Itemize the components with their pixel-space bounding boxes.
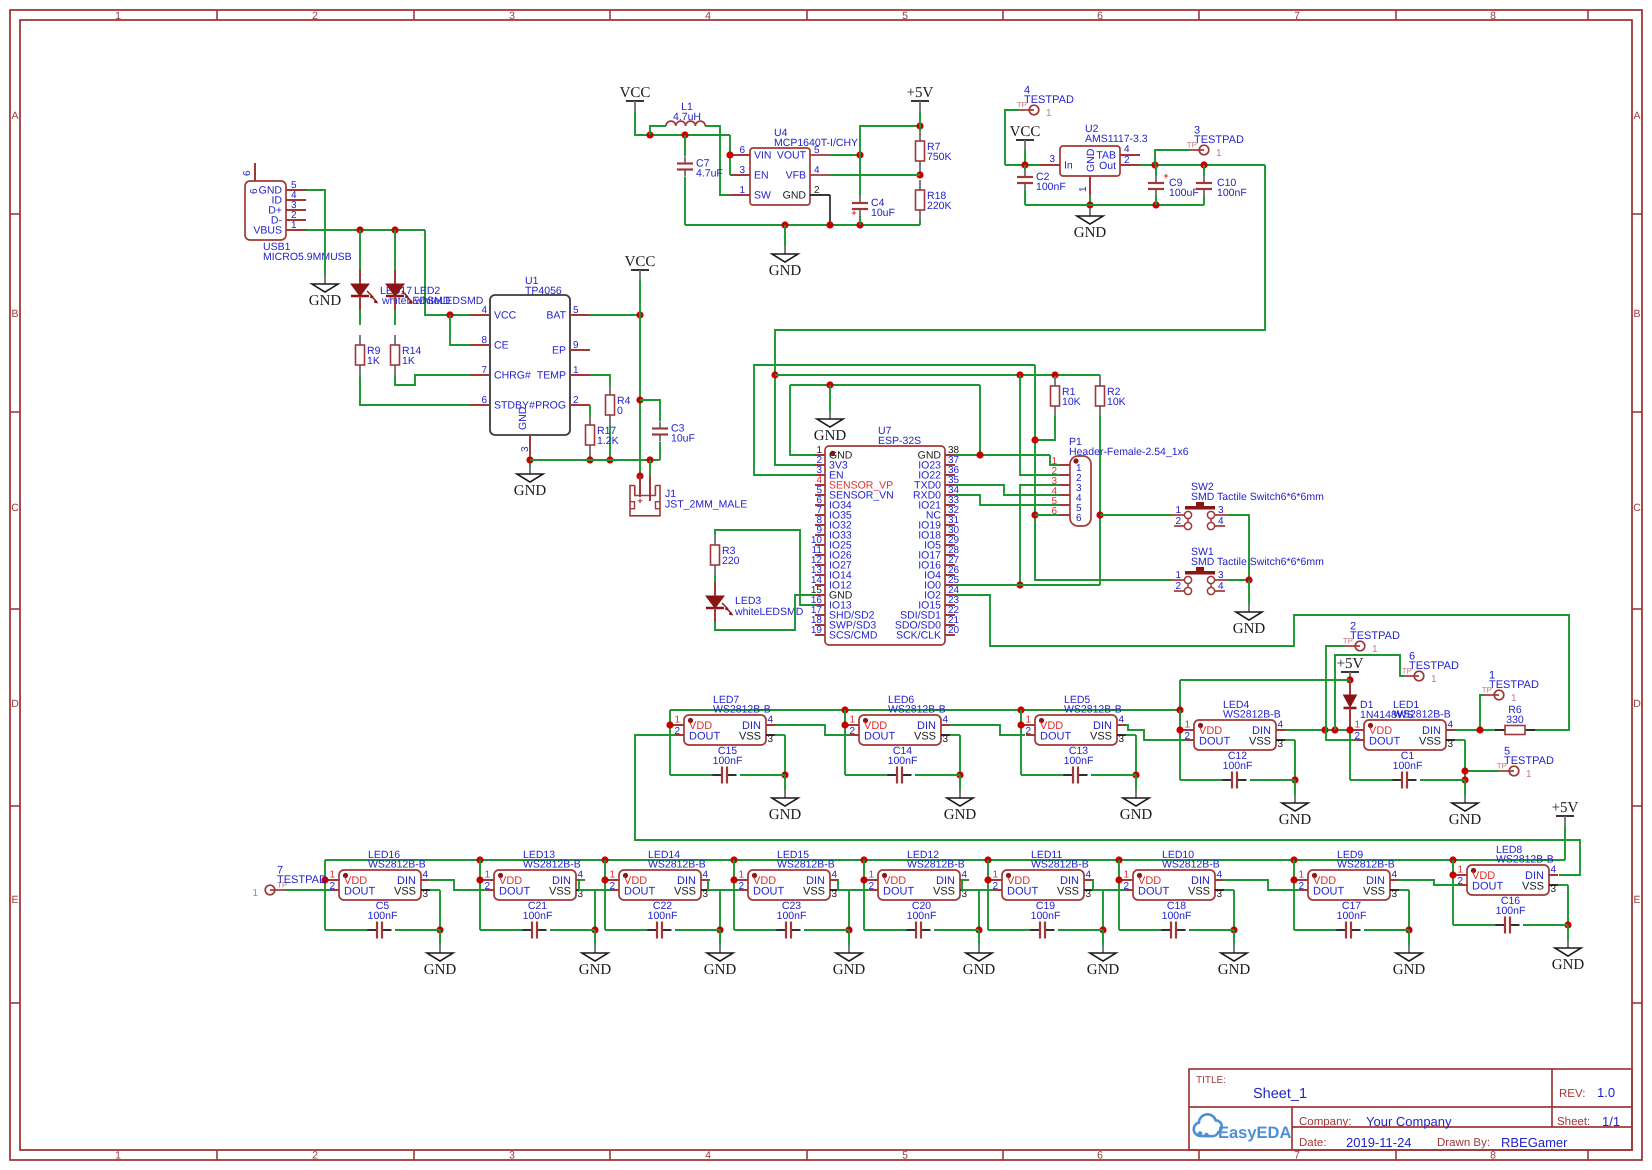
svg-text:3: 3 xyxy=(1218,570,1224,581)
svg-text:3: 3 xyxy=(509,1150,515,1162)
svg-text:3: 3 xyxy=(768,734,774,745)
svg-text:4: 4 xyxy=(1448,720,1454,731)
svg-text:4: 4 xyxy=(1124,144,1130,155)
power VCC top left xyxy=(620,85,730,139)
wire BAT to VCC net xyxy=(590,311,644,318)
LED LED14 WS2812B-B xyxy=(601,849,723,934)
svg-text:WS2812B-B: WS2812B-B xyxy=(1162,859,1220,871)
resistor R4 0 xyxy=(606,385,631,425)
inductor L1 4.7uH xyxy=(650,101,705,135)
svg-text:VSS: VSS xyxy=(1363,886,1385,898)
svg-text:DOUT: DOUT xyxy=(753,886,784,898)
svg-text:MICRO5.9MMUSB: MICRO5.9MMUSB xyxy=(263,251,352,263)
svg-text:1: 1 xyxy=(329,870,335,881)
svg-text:TESTPAD: TESTPAD xyxy=(1024,94,1074,106)
svg-text:VSS: VSS xyxy=(1188,886,1210,898)
svg-text:8: 8 xyxy=(481,335,487,346)
IC U4 MCP1640T-I/CHY xyxy=(730,127,858,205)
svg-text:GND: GND xyxy=(963,962,996,978)
ground under LED4 xyxy=(1279,780,1312,828)
svg-text:100nF: 100nF xyxy=(1496,905,1526,917)
svg-text:VCC: VCC xyxy=(1010,124,1041,140)
svg-text:4: 4 xyxy=(768,715,774,726)
wire P1 pin6 EN xyxy=(1035,514,1060,516)
switch SW1 SMD Tactile Switch6*6*6mm xyxy=(1172,546,1324,595)
svg-text:3: 3 xyxy=(1086,889,1092,900)
svg-text:5: 5 xyxy=(902,1150,908,1162)
wire R9 to STDBY# xyxy=(360,375,470,405)
resistor R2 10K xyxy=(1096,375,1126,585)
svg-text:GND: GND xyxy=(1279,812,1312,828)
wire ESP pin38 GND to P1 pin1 xyxy=(955,385,1060,465)
svg-text:DOUT: DOUT xyxy=(1199,736,1230,748)
svg-text:DOUT: DOUT xyxy=(1313,886,1344,898)
wire EN rail xyxy=(754,365,1035,475)
svg-text:E: E xyxy=(11,894,18,906)
svg-text:2: 2 xyxy=(1175,581,1181,592)
svg-text:DOUT: DOUT xyxy=(883,886,914,898)
svg-text:1: 1 xyxy=(1184,720,1190,731)
svg-text:+: + xyxy=(637,496,643,507)
LED LED16 WS2812B-B xyxy=(321,849,443,934)
svg-text:1: 1 xyxy=(1078,186,1089,192)
capacitor C2 100nF xyxy=(1017,165,1066,205)
svg-text:GND: GND xyxy=(704,962,737,978)
svg-text:WS2812B-B: WS2812B-B xyxy=(648,859,706,871)
svg-text:VSS: VSS xyxy=(933,886,955,898)
capacitor C for LED5 xyxy=(1021,745,1136,784)
testpad TP6 xyxy=(1335,651,1459,731)
svg-text:4: 4 xyxy=(832,870,838,881)
svg-text:GND: GND xyxy=(1393,962,1426,978)
svg-text:1: 1 xyxy=(291,220,297,231)
svg-text:2: 2 xyxy=(312,1150,318,1162)
svg-text:VSS: VSS xyxy=(1249,736,1271,748)
capacitor C for LED15 xyxy=(734,900,849,939)
power VCC at U2 xyxy=(1010,124,1041,165)
svg-text:Out: Out xyxy=(1099,160,1116,172)
capacitor C for LED6 xyxy=(845,745,960,784)
capacitor C for LED7 xyxy=(670,745,785,784)
svg-text:1: 1 xyxy=(1216,148,1222,159)
capacitor C for LED13 xyxy=(480,900,595,939)
ground under LED9 xyxy=(1393,930,1426,978)
wire RXD0 to P1 pin5 xyxy=(955,495,1060,505)
resistor R18 220K xyxy=(916,180,952,225)
svg-text:10uF: 10uF xyxy=(671,433,695,445)
svg-text:GND: GND xyxy=(1120,807,1153,823)
svg-text:1: 1 xyxy=(1372,644,1378,655)
LED LED8 WS2812B-B xyxy=(1449,844,1571,929)
svg-text:2: 2 xyxy=(1025,726,1031,737)
svg-text:4: 4 xyxy=(1218,516,1224,527)
svg-text:VSS: VSS xyxy=(739,731,761,743)
wire LED8 DOUT to LED9 DIN xyxy=(1398,880,1459,885)
svg-text:D: D xyxy=(1633,698,1641,710)
LED LED7 WS2812B-B xyxy=(666,694,788,779)
wire Out net xyxy=(1140,161,1265,168)
capacitor C for LED11 xyxy=(988,900,1103,939)
wire bottom row 5V rail xyxy=(325,856,1565,863)
svg-text:+: + xyxy=(1163,171,1168,181)
testpad TP1 xyxy=(1480,670,1539,731)
svg-text:100nF: 100nF xyxy=(1337,910,1367,922)
svg-text:7: 7 xyxy=(1294,1150,1300,1162)
ground under LED7 xyxy=(769,775,802,823)
svg-text:D: D xyxy=(11,698,19,710)
svg-text:WS2812B-B: WS2812B-B xyxy=(1064,704,1122,716)
svg-text:+5V: +5V xyxy=(1337,656,1364,672)
wire IO0 row xyxy=(955,584,1100,586)
svg-text:SMD Tactile Switch6*6*6mm: SMD Tactile Switch6*6*6mm xyxy=(1191,491,1324,503)
svg-text:GND: GND xyxy=(1074,225,1107,241)
wire U1 ground rail xyxy=(526,455,660,466)
svg-text:1: 1 xyxy=(1175,570,1181,581)
svg-text:DOUT: DOUT xyxy=(1138,886,1169,898)
svg-text:VIN: VIN xyxy=(754,150,772,162)
svg-text:100nF: 100nF xyxy=(1064,755,1094,767)
svg-text:VOUT: VOUT xyxy=(777,150,807,162)
capacitor C7 4.7uF xyxy=(677,135,723,225)
connector USB1 MICRO5.9MMUSB xyxy=(242,163,352,263)
svg-text:3: 3 xyxy=(1217,889,1223,900)
svg-text:4.7uH: 4.7uH xyxy=(673,111,701,123)
svg-text:1: 1 xyxy=(849,715,855,726)
capacitor C4 10uF xyxy=(851,155,895,225)
power +5V top xyxy=(907,85,934,126)
svg-text:WS2812B-B: WS2812B-B xyxy=(1496,854,1554,866)
svg-text:3: 3 xyxy=(1278,739,1284,750)
svg-text:CE: CE xyxy=(494,340,509,352)
wire LED14 DOUT to LED13 DIN xyxy=(579,880,611,890)
wire LED6 DOUT to LED7 DIN xyxy=(775,725,850,735)
svg-text:8: 8 xyxy=(1490,1150,1496,1162)
ground under USB1 xyxy=(309,276,342,309)
capacitor C for LED4 xyxy=(1180,750,1295,789)
svg-text:DOUT: DOUT xyxy=(1369,736,1400,748)
resistor R9 1K xyxy=(356,335,381,375)
svg-text:REV:: REV: xyxy=(1559,1088,1585,1100)
wire 3V3 long route xyxy=(771,165,1265,465)
svg-text:6: 6 xyxy=(1076,513,1082,524)
testpad TP2 xyxy=(1326,621,1400,741)
wire LED10 DOUT to LED11 DIN xyxy=(1092,880,1125,890)
svg-text:750K: 750K xyxy=(927,151,952,163)
svg-text:+5V: +5V xyxy=(907,85,934,101)
ground under LED10 xyxy=(1218,930,1251,978)
svg-text:B: B xyxy=(1633,308,1640,320)
svg-text:WS2812B-B: WS2812B-B xyxy=(1031,859,1089,871)
wire U2 ground rail xyxy=(1025,195,1204,209)
svg-text:VCC: VCC xyxy=(620,85,651,101)
svg-text:+5V: +5V xyxy=(1552,800,1579,816)
capacitor C for LED10 xyxy=(1119,900,1234,939)
svg-text:4: 4 xyxy=(1278,720,1284,731)
svg-text:WS2812B-B: WS2812B-B xyxy=(777,859,835,871)
svg-text:whiteLEDSMD: whiteLEDSMD xyxy=(414,295,484,307)
svg-text:7: 7 xyxy=(1294,10,1300,22)
EasyEDA logo xyxy=(1194,1114,1292,1142)
svg-text:3: 3 xyxy=(1392,889,1398,900)
svg-text:1/1: 1/1 xyxy=(1602,1114,1620,1129)
svg-text:2: 2 xyxy=(849,726,855,737)
svg-text:1: 1 xyxy=(252,888,258,899)
LED LED1 WS2812B-B xyxy=(1346,699,1468,784)
ground above ESP xyxy=(790,381,980,444)
wire LED3 to ESP GND pin15 xyxy=(715,595,815,630)
svg-text:100nF: 100nF xyxy=(368,910,398,922)
svg-text:Date:: Date: xyxy=(1299,1137,1327,1149)
svg-text:1: 1 xyxy=(1025,715,1031,726)
svg-text:10K: 10K xyxy=(1062,396,1081,408)
resistor R14 1K xyxy=(391,335,422,375)
svg-text:DOUT: DOUT xyxy=(624,886,655,898)
LED LED2 whiteLEDSMD xyxy=(386,230,484,325)
svg-text:VSS: VSS xyxy=(1522,881,1544,893)
svg-text:SCK/CLK: SCK/CLK xyxy=(896,630,941,642)
svg-text:9: 9 xyxy=(573,340,579,351)
svg-text:2019-11-24: 2019-11-24 xyxy=(1346,1135,1412,1150)
svg-text:4: 4 xyxy=(962,870,968,881)
svg-text:2: 2 xyxy=(1124,155,1130,166)
svg-text:1: 1 xyxy=(484,870,490,881)
svg-text:PROG: PROG xyxy=(535,400,566,412)
svg-text:EP: EP xyxy=(552,345,566,357)
wire L1 to SW pin xyxy=(705,126,730,195)
svg-text:1: 1 xyxy=(1046,108,1052,119)
LED LED6 WS2812B-B xyxy=(841,694,963,779)
svg-text:GND: GND xyxy=(514,483,547,499)
svg-text:10uF: 10uF xyxy=(871,207,895,219)
svg-text:VSS: VSS xyxy=(1057,886,1079,898)
svg-text:WS2812B-B: WS2812B-B xyxy=(368,859,426,871)
wire R4 to ground rail xyxy=(606,425,613,464)
svg-text:C: C xyxy=(11,502,19,514)
svg-text:RBEGamer: RBEGamer xyxy=(1501,1135,1568,1150)
svg-text:100nF: 100nF xyxy=(888,755,918,767)
svg-text:DOUT: DOUT xyxy=(344,886,375,898)
svg-text:WS2812B-B: WS2812B-B xyxy=(713,704,771,716)
svg-text:6: 6 xyxy=(1097,1150,1103,1162)
testpad TP7 xyxy=(252,865,331,900)
svg-text:whiteLEDSMD: whiteLEDSMD xyxy=(734,606,804,618)
testpad TP4 xyxy=(1005,85,1074,166)
wire IO2 to R6 chain input xyxy=(955,595,1569,730)
LED LED17 whiteLEDSMD xyxy=(351,230,451,325)
svg-text:1: 1 xyxy=(1175,505,1181,516)
svg-text:GND: GND xyxy=(769,807,802,823)
wire SW2 pin3 to SW1 pin3 xyxy=(1227,515,1253,604)
svg-text:3: 3 xyxy=(520,446,531,452)
svg-text:1K: 1K xyxy=(367,355,380,367)
svg-text:BAT: BAT xyxy=(546,310,566,322)
capacitor C10 100nF xyxy=(1196,165,1247,205)
svg-text:1N4148WS: 1N4148WS xyxy=(1360,709,1414,721)
wire LED4 DOUT to LED5 DIN xyxy=(1126,725,1185,740)
svg-text:1.2K: 1.2K xyxy=(597,435,619,447)
svg-text:1: 1 xyxy=(739,185,745,196)
svg-text:100nF: 100nF xyxy=(1036,181,1066,193)
svg-text:VFB: VFB xyxy=(786,170,806,182)
svg-text:VSS: VSS xyxy=(674,886,696,898)
svg-text:1: 1 xyxy=(1526,769,1532,780)
wire LED5 DOUT to LED6 DIN xyxy=(950,725,1025,735)
wire LED1 DIN to R6 xyxy=(1455,726,1496,733)
wire LED13 DOUT to LED16 DIN xyxy=(429,880,486,890)
svg-text:2: 2 xyxy=(1175,516,1181,527)
svg-text:SCS/CMD: SCS/CMD xyxy=(829,630,878,642)
testpad TP3 xyxy=(1155,125,1244,166)
wire SW2 pin1 xyxy=(1100,514,1172,516)
wire LED9 DOUT to LED10 DIN xyxy=(1223,880,1300,890)
svg-text:4: 4 xyxy=(1119,715,1125,726)
svg-text:100uF: 100uF xyxy=(1169,187,1199,199)
wire VOUT to +5V xyxy=(830,122,924,158)
svg-text:6: 6 xyxy=(1051,506,1057,517)
svg-text:DOUT: DOUT xyxy=(864,731,895,743)
svg-text:EasyEDA: EasyEDA xyxy=(1218,1124,1291,1142)
title block xyxy=(1189,1069,1632,1150)
svg-text:4: 4 xyxy=(814,165,820,176)
power +5V bottom row xyxy=(1552,800,1579,860)
svg-text:GND: GND xyxy=(424,962,457,978)
svg-text:4: 4 xyxy=(943,715,949,726)
svg-text:100nF: 100nF xyxy=(1217,187,1247,199)
svg-text:SMD Tactile Switch6*6*6mm: SMD Tactile Switch6*6*6mm xyxy=(1191,556,1324,568)
LED LED13 WS2812B-B xyxy=(476,849,598,934)
ground under U2 xyxy=(1074,208,1107,241)
svg-text:DOUT: DOUT xyxy=(689,731,720,743)
svg-text:1: 1 xyxy=(1123,870,1129,881)
svg-text:Sheet:: Sheet: xyxy=(1557,1116,1590,1128)
svg-text:TESTPAD: TESTPAD xyxy=(277,874,327,886)
svg-text:6: 6 xyxy=(1097,10,1103,22)
ground under U4 xyxy=(769,225,802,279)
resistor R1 10K xyxy=(1035,376,1081,440)
svg-text:VSS: VSS xyxy=(1419,736,1441,748)
resistor R6 330 xyxy=(1495,704,1535,735)
svg-text:GND: GND xyxy=(517,406,529,430)
svg-text:TESTPAD: TESTPAD xyxy=(1489,679,1539,691)
ground under switches xyxy=(1233,604,1266,637)
svg-text:3: 3 xyxy=(943,734,949,745)
wire TXD0 to P1 pin4 xyxy=(955,485,1060,495)
wire LED11 DOUT to LED12 DIN xyxy=(962,880,994,890)
svg-text:DOUT: DOUT xyxy=(499,886,530,898)
svg-text:In: In xyxy=(1064,160,1073,172)
svg-text:CHRG#: CHRG# xyxy=(494,370,531,382)
svg-text:WS2812B-B: WS2812B-B xyxy=(1223,709,1281,721)
svg-text:100nF: 100nF xyxy=(1393,760,1423,772)
ground under U1 xyxy=(514,466,547,499)
svg-text:B: B xyxy=(11,308,18,320)
LED LED3 whiteLEDSMD xyxy=(706,575,804,622)
svg-text:3: 3 xyxy=(1551,884,1557,895)
svg-text:3: 3 xyxy=(1119,734,1125,745)
svg-text:10K: 10K xyxy=(1107,396,1126,408)
svg-text:2: 2 xyxy=(573,395,579,406)
LED LED15 WS2812B-B xyxy=(730,849,852,934)
capacitor C for LED14 xyxy=(605,900,720,939)
svg-text:3: 3 xyxy=(509,10,515,22)
capacitor C for LED16 xyxy=(325,900,440,939)
svg-text:330: 330 xyxy=(1506,714,1524,726)
svg-text:1: 1 xyxy=(609,870,615,881)
wire VFB xyxy=(830,174,920,176)
ground under LED8 xyxy=(1552,925,1585,973)
resistor R7 750K xyxy=(916,126,952,179)
svg-text:GND: GND xyxy=(1233,621,1266,637)
svg-text:1: 1 xyxy=(868,870,874,881)
svg-text:Company:: Company: xyxy=(1299,1116,1351,1128)
svg-text:4: 4 xyxy=(578,870,584,881)
IC U1 TP4056 xyxy=(470,275,590,455)
svg-text:EN: EN xyxy=(754,170,769,182)
ground under LED15 xyxy=(833,930,866,978)
svg-text:4: 4 xyxy=(705,10,711,22)
svg-text:1: 1 xyxy=(1354,720,1360,731)
svg-text:3: 3 xyxy=(739,165,745,176)
svg-text:VBUS: VBUS xyxy=(253,225,282,237)
wire IO13 to R3 xyxy=(715,530,815,605)
svg-text:TESTPAD: TESTPAD xyxy=(1194,134,1244,146)
wire middle row 5V rail xyxy=(670,680,1184,720)
wire VBUS net xyxy=(306,226,470,345)
svg-text:TESTPAD: TESTPAD xyxy=(1350,630,1400,642)
testpad TP5 xyxy=(1461,746,1554,781)
svg-text:100nF: 100nF xyxy=(523,910,553,922)
wire LED4 DIN to LED1 DOUT net xyxy=(1285,726,1354,733)
svg-text:GND: GND xyxy=(1449,812,1482,828)
svg-text:VCC: VCC xyxy=(625,254,656,270)
svg-text:3: 3 xyxy=(1218,505,1224,516)
wire U4 ground net xyxy=(685,195,920,229)
diode D1 1N4148WS xyxy=(1344,680,1414,730)
svg-text:SW: SW xyxy=(754,190,771,202)
capacitor C3 10uF xyxy=(640,400,695,460)
resistor R17 1.2K xyxy=(586,415,619,455)
svg-text:1: 1 xyxy=(115,1150,121,1162)
svg-text:4.7uF: 4.7uF xyxy=(696,168,723,180)
svg-text:4: 4 xyxy=(705,1150,711,1162)
switch SW2 SMD Tactile Switch6*6*6mm xyxy=(1172,481,1324,530)
LED LED4 WS2812B-B xyxy=(1176,699,1298,784)
svg-text:1K: 1K xyxy=(402,355,415,367)
svg-text:100nF: 100nF xyxy=(907,910,937,922)
svg-text:6: 6 xyxy=(481,395,487,406)
wire EN vertical to SW1 xyxy=(1031,365,1172,580)
svg-text:GND: GND xyxy=(833,962,866,978)
LED LED5 WS2812B-B xyxy=(1017,694,1139,779)
wire LED7 DOUT down to bottom row chain xyxy=(635,735,1580,875)
svg-text:A: A xyxy=(11,110,18,122)
svg-text:100nF: 100nF xyxy=(713,755,743,767)
capacitor C for LED9 xyxy=(1294,900,1409,939)
svg-text:Sheet_1: Sheet_1 xyxy=(1253,1086,1307,1102)
resistor R3 220 xyxy=(711,535,740,575)
svg-text:VCC: VCC xyxy=(494,310,517,322)
svg-text:4: 4 xyxy=(481,305,487,316)
svg-text:1: 1 xyxy=(1298,870,1304,881)
svg-text:GND: GND xyxy=(309,293,342,309)
IC U2 AMS1117-3.3 xyxy=(1040,123,1148,195)
ground under LED5 xyxy=(1120,775,1153,823)
svg-text:100nF: 100nF xyxy=(1162,910,1192,922)
svg-text:GND: GND xyxy=(769,263,802,279)
svg-text:GND: GND xyxy=(783,190,807,202)
svg-text:C: C xyxy=(1633,502,1641,514)
svg-text:1: 1 xyxy=(738,870,744,881)
